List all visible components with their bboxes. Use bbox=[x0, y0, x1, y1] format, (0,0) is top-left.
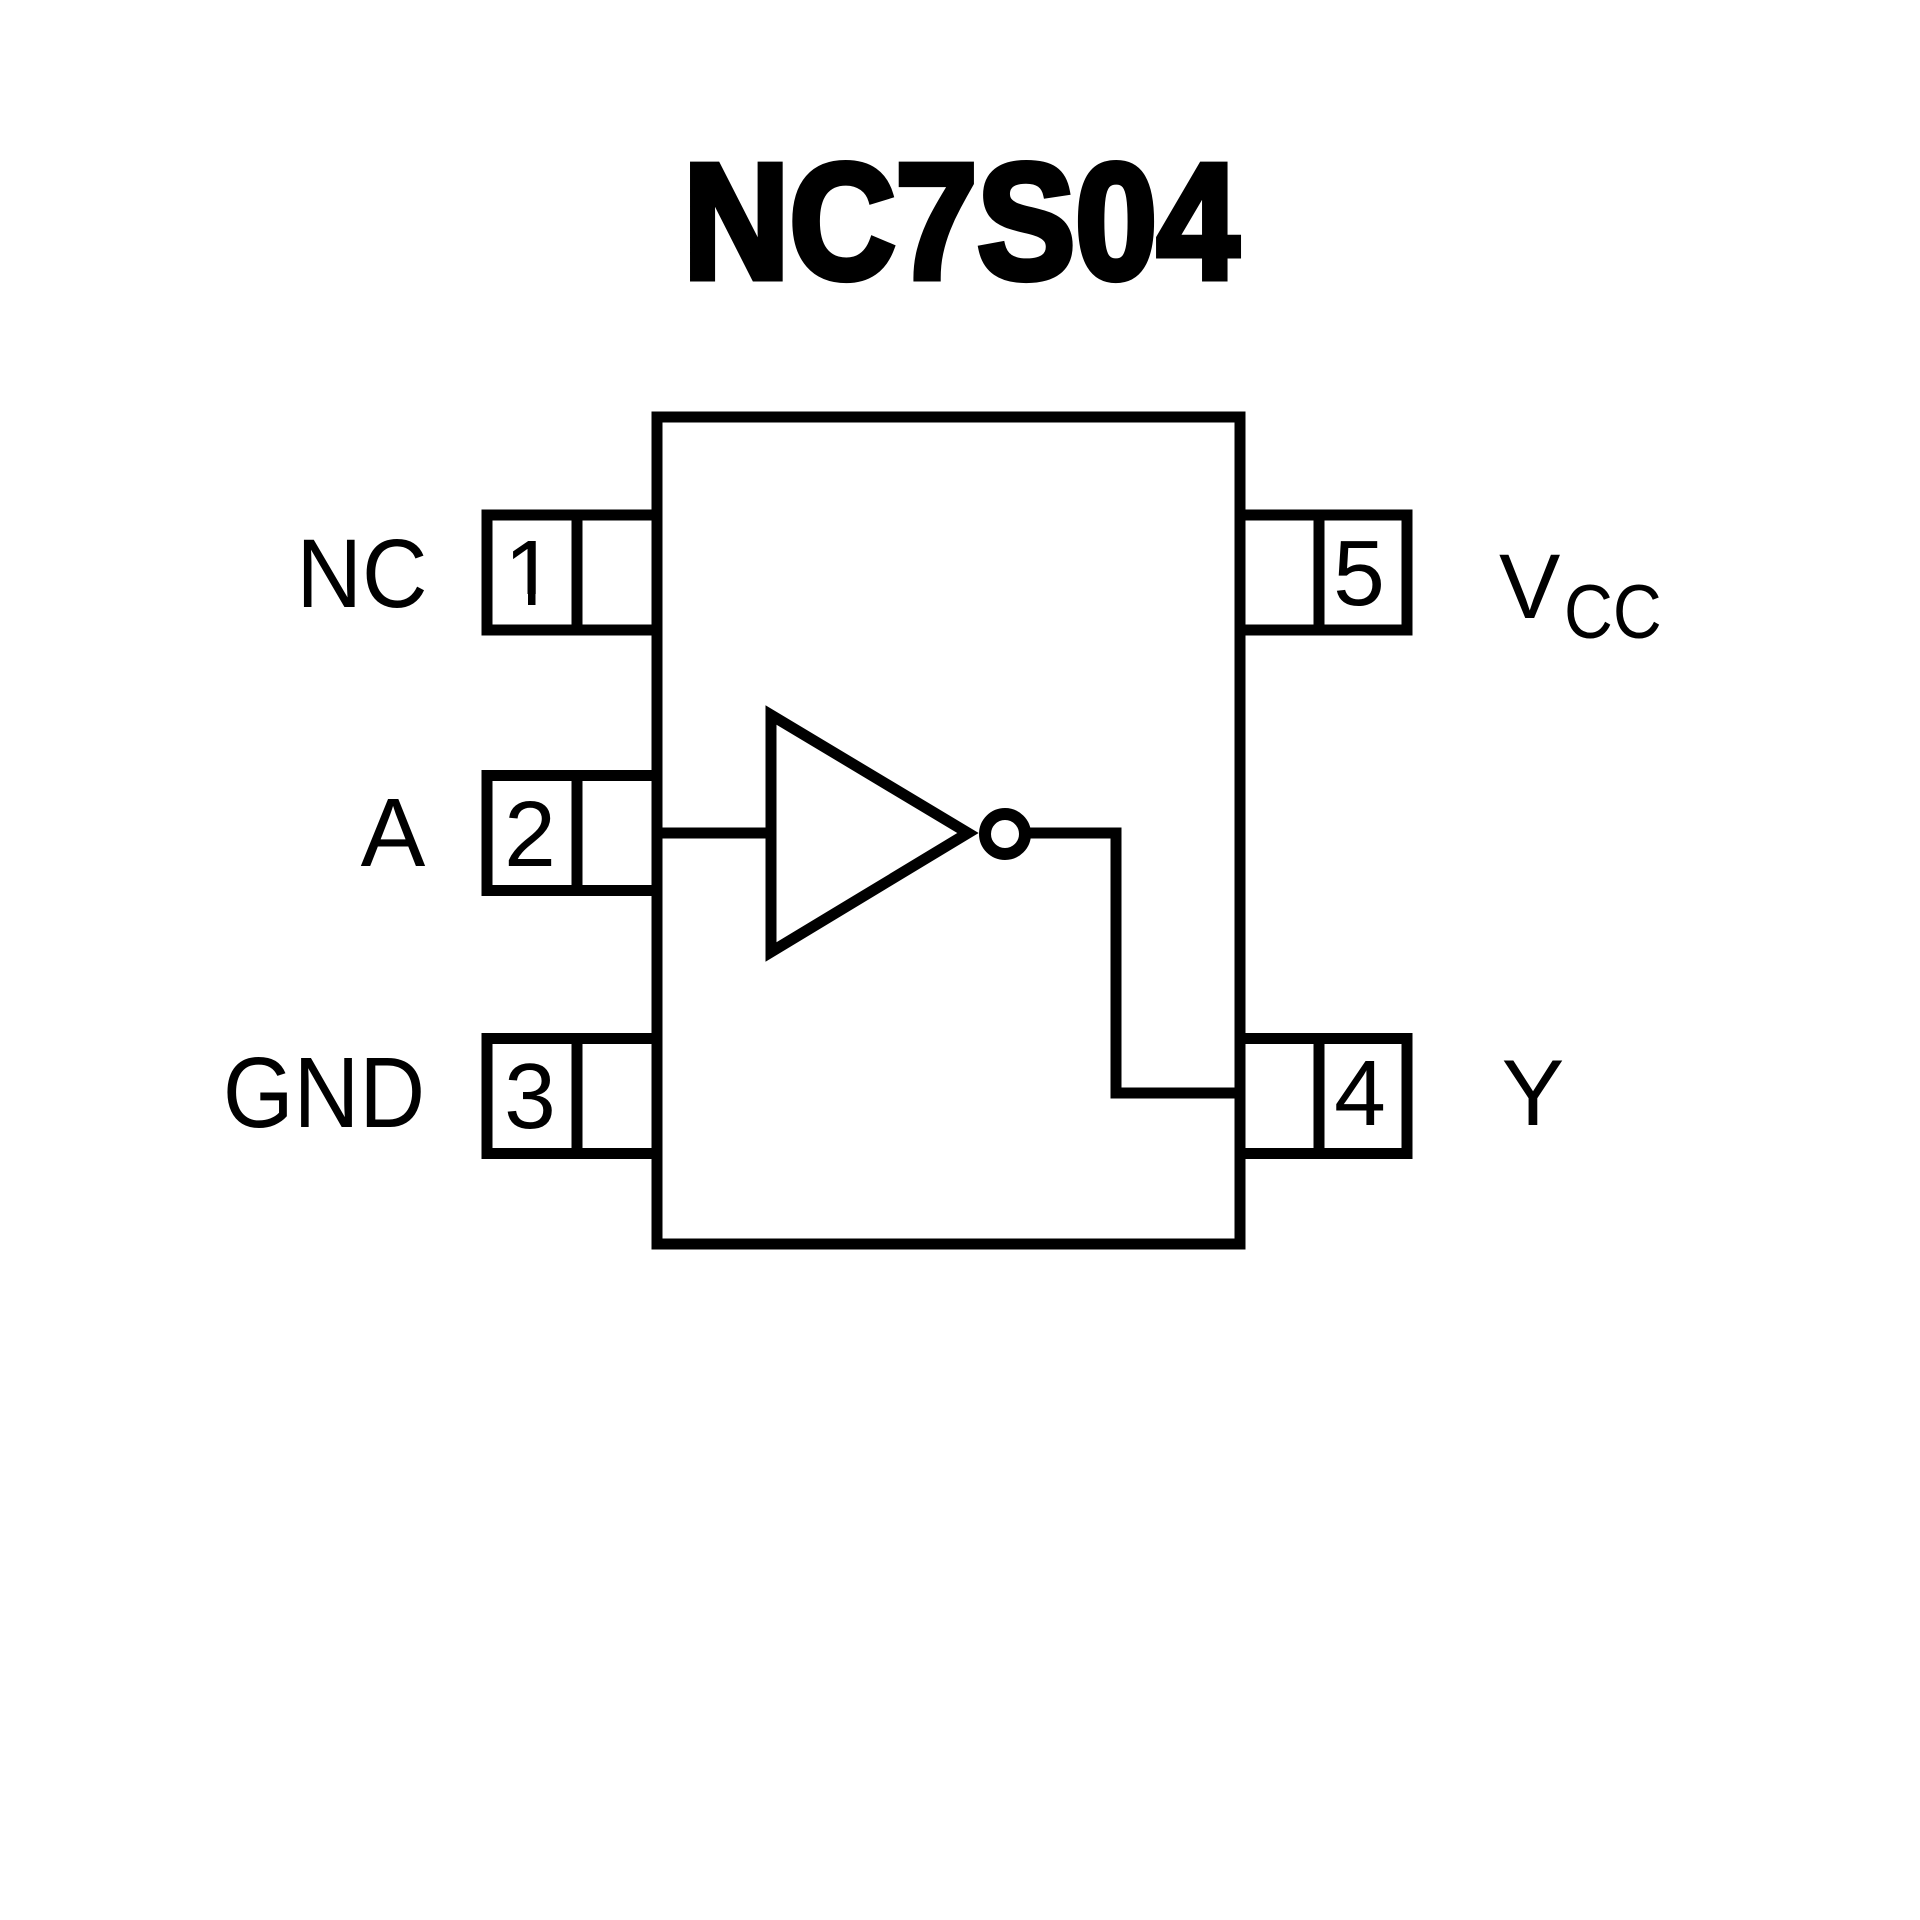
pin 3 box bbox=[487, 1039, 657, 1154]
inverter U1 triangle bbox=[771, 715, 968, 952]
pin label GND bbox=[223, 1037, 425, 1149]
wire bubble to pin 4 bbox=[1026, 833, 1246, 1093]
svg-text:A: A bbox=[361, 778, 426, 887]
svg-text:2: 2 bbox=[504, 782, 556, 886]
svg-text:GND: GND bbox=[223, 1037, 425, 1149]
pin 5 divider bbox=[1314, 515, 1325, 630]
svg-text:5: 5 bbox=[1333, 521, 1385, 625]
wire pin2 to inverter input bbox=[657, 828, 771, 839]
svg-text:CC: CC bbox=[1564, 570, 1662, 655]
pin 4 divider bbox=[1314, 1039, 1325, 1154]
IC body U1 bbox=[657, 417, 1240, 1244]
svg-text:1: 1 bbox=[504, 521, 556, 625]
svg-text:NC: NC bbox=[297, 519, 428, 627]
pin 5 box bbox=[1240, 515, 1407, 630]
svg-text:NC7S04: NC7S04 bbox=[683, 129, 1238, 312]
title NC7S04 bbox=[683, 129, 1238, 312]
svg-text:V: V bbox=[1499, 536, 1560, 638]
pin label NC bbox=[297, 519, 428, 627]
pin 4 box bbox=[1240, 1039, 1407, 1154]
pin 1 divider bbox=[572, 515, 583, 630]
pin 2 divider bbox=[572, 776, 583, 891]
pin 1 box bbox=[487, 515, 657, 630]
pin 2 box bbox=[487, 776, 657, 891]
pin 3 divider bbox=[572, 1039, 583, 1154]
svg-text:3: 3 bbox=[504, 1044, 556, 1148]
svg-text:4: 4 bbox=[1334, 1041, 1386, 1145]
inverter output bubble bbox=[985, 814, 1025, 854]
svg-text:Y: Y bbox=[1502, 1040, 1565, 1145]
